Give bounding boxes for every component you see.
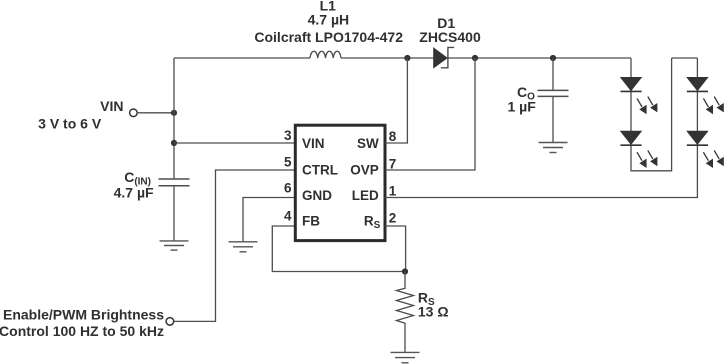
node SW junction bbox=[404, 55, 410, 61]
svg-text:GND: GND bbox=[302, 188, 332, 203]
LED D5 bbox=[687, 131, 724, 168]
ground RS bbox=[391, 352, 420, 362]
svg-text:1: 1 bbox=[389, 184, 397, 199]
wire LED string1 bbox=[631, 58, 672, 171]
diode D1 bbox=[434, 47, 455, 67]
node VIN junction bbox=[171, 110, 177, 116]
node OVP junction bbox=[472, 55, 478, 61]
inductor L1 bbox=[310, 51, 341, 58]
node RS junction bbox=[402, 268, 408, 274]
svg-text:7: 7 bbox=[389, 157, 397, 172]
svg-text:13 Ω: 13 Ω bbox=[418, 304, 449, 320]
LED D2 bbox=[620, 77, 657, 114]
capacitor CIN bbox=[159, 179, 190, 186]
ground GND pin bbox=[229, 242, 258, 252]
wire inductor to SW node bbox=[341, 57, 434, 59]
node pin3 junction bbox=[171, 140, 177, 146]
wire VIN vertical bbox=[173, 58, 175, 179]
svg-text:LED: LED bbox=[352, 188, 379, 203]
svg-text:5: 5 bbox=[284, 154, 292, 169]
terminal Enable circle bbox=[166, 318, 174, 326]
ground CO bbox=[539, 143, 568, 153]
wire VIN terminal to rail bbox=[137, 112, 174, 114]
wire top rail left segment bbox=[174, 57, 310, 59]
LED D4 bbox=[687, 77, 724, 114]
wire SW pin8 bbox=[385, 58, 407, 143]
svg-text:OVP: OVP bbox=[350, 162, 379, 177]
svg-text:1 µF: 1 µF bbox=[508, 99, 537, 115]
wire CIN to ground bbox=[173, 186, 175, 241]
IC U1 box bbox=[295, 125, 385, 240]
wire CTRL pin5 bbox=[173, 170, 295, 321]
wire FB pin4 bbox=[272, 226, 405, 272]
capacitor CO bbox=[538, 90, 569, 96]
wire pin3 VIN to IC bbox=[174, 142, 295, 144]
svg-text:4.7 µH: 4.7 µH bbox=[308, 12, 350, 28]
wire CO drop bbox=[552, 58, 554, 90]
svg-text:2: 2 bbox=[389, 211, 397, 226]
svg-text:3 V to 6 V: 3 V to 6 V bbox=[38, 116, 102, 132]
svg-text:Coilcraft LPO1704-472: Coilcraft LPO1704-472 bbox=[254, 29, 403, 45]
svg-text:ZHCS400: ZHCS400 bbox=[419, 29, 481, 45]
svg-text:4.7 µF: 4.7 µF bbox=[114, 184, 154, 200]
svg-text:FB: FB bbox=[302, 214, 320, 229]
wire OVP pin7 bbox=[385, 58, 475, 170]
wire diode to output rail bbox=[447, 57, 631, 59]
svg-text:Control 100 HZ to 50 kHz: Control 100 HZ to 50 kHz bbox=[0, 323, 164, 339]
svg-text:Enable/PWM Brightness: Enable/PWM Brightness bbox=[3, 307, 164, 323]
svg-text:SW: SW bbox=[357, 136, 379, 151]
wire RS pin2 bbox=[385, 226, 406, 272]
svg-text:CTRL: CTRL bbox=[302, 162, 338, 177]
svg-text:8: 8 bbox=[389, 129, 397, 144]
resistor RS bbox=[397, 272, 414, 353]
wire GND pin6 bbox=[243, 198, 295, 242]
svg-text:3: 3 bbox=[284, 128, 292, 143]
svg-text:VIN: VIN bbox=[100, 98, 123, 114]
svg-text:6: 6 bbox=[284, 181, 292, 196]
terminal VIN circle bbox=[130, 109, 138, 117]
wire LED pin1 bbox=[385, 58, 697, 198]
node CO junction bbox=[550, 55, 556, 61]
svg-text:VIN: VIN bbox=[302, 136, 325, 151]
wire CO to ground bbox=[552, 96, 554, 142]
svg-text:4: 4 bbox=[284, 209, 292, 224]
LED D3 bbox=[620, 131, 657, 168]
ground CIN bbox=[160, 241, 189, 250]
wire string connector top bbox=[672, 57, 698, 59]
